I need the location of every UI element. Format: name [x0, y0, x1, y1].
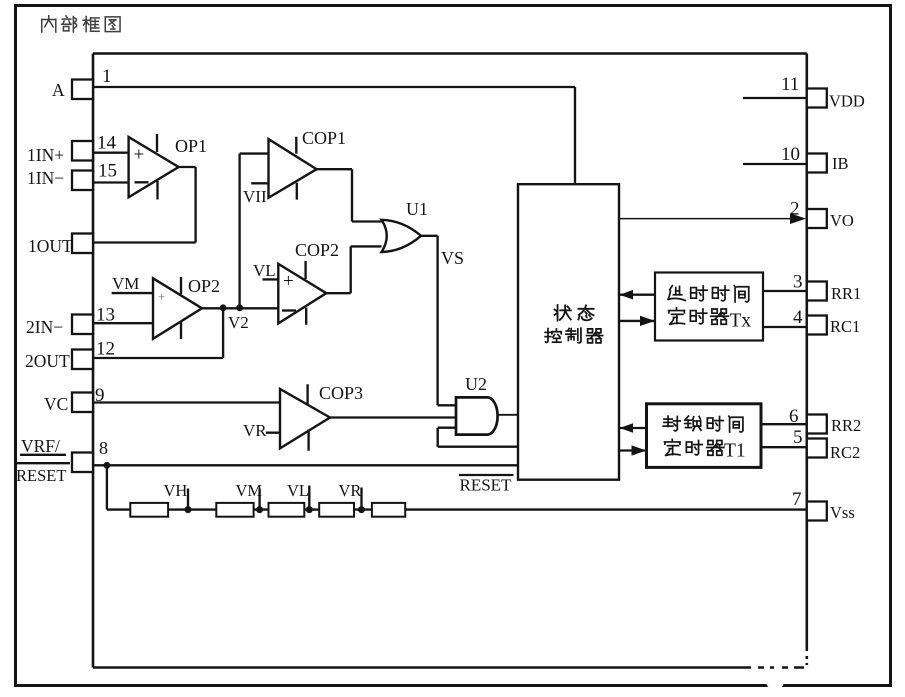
- svg-text:1IN+: 1IN+: [27, 145, 64, 165]
- svg-text:VO: VO: [830, 211, 854, 230]
- svg-text:U1: U1: [406, 199, 428, 219]
- svg-text:VH: VH: [164, 481, 188, 500]
- svg-text:VC: VC: [44, 394, 68, 414]
- svg-text:VII: VII: [243, 187, 267, 206]
- svg-text:V2: V2: [228, 313, 249, 332]
- svg-text:5: 5: [793, 427, 803, 448]
- svg-text:OP1: OP1: [175, 136, 207, 156]
- svg-text:Vss: Vss: [830, 503, 855, 522]
- svg-text:Tx: Tx: [730, 311, 752, 332]
- svg-text:VL: VL: [287, 481, 309, 500]
- svg-text:2IN−: 2IN−: [26, 317, 63, 337]
- svg-text:U2: U2: [465, 374, 487, 394]
- svg-text:VR: VR: [243, 421, 267, 440]
- svg-text:RC1: RC1: [830, 317, 860, 336]
- svg-text:RR2: RR2: [831, 416, 861, 435]
- svg-text:RESET: RESET: [460, 476, 513, 495]
- svg-text:1OUT: 1OUT: [28, 236, 73, 256]
- svg-text:OP2: OP2: [188, 276, 220, 296]
- svg-text:2OUT: 2OUT: [25, 351, 70, 371]
- svg-text:+: +: [283, 271, 294, 292]
- svg-text:A: A: [52, 80, 65, 100]
- svg-text:VM: VM: [236, 481, 263, 500]
- svg-text:RR1: RR1: [831, 284, 861, 303]
- svg-text:IB: IB: [832, 154, 849, 173]
- svg-text:T1: T1: [724, 441, 746, 462]
- svg-text:+: +: [158, 289, 165, 304]
- svg-text:12: 12: [96, 339, 115, 360]
- svg-text:VL: VL: [253, 261, 276, 280]
- svg-text:6: 6: [789, 406, 799, 427]
- svg-text:2: 2: [790, 199, 800, 220]
- svg-text:11: 11: [781, 74, 799, 95]
- svg-text:4: 4: [793, 307, 803, 328]
- svg-text:13: 13: [96, 305, 115, 326]
- svg-text:VRF/: VRF/: [21, 436, 60, 456]
- svg-text:1IN−: 1IN−: [27, 168, 64, 188]
- svg-text:COP3: COP3: [319, 383, 363, 403]
- svg-text:1: 1: [102, 66, 112, 87]
- svg-text:RC2: RC2: [830, 443, 860, 462]
- svg-text:7: 7: [792, 489, 802, 510]
- svg-text:COP2: COP2: [295, 240, 339, 260]
- svg-text:9: 9: [95, 385, 105, 406]
- svg-text:VR: VR: [339, 481, 362, 500]
- svg-text:VM: VM: [112, 274, 139, 293]
- svg-text:VDD: VDD: [829, 92, 865, 111]
- svg-text:10: 10: [781, 144, 800, 165]
- svg-text:15: 15: [98, 161, 117, 182]
- svg-text:+: +: [134, 145, 145, 166]
- svg-text:8: 8: [99, 438, 108, 458]
- svg-text:COP1: COP1: [302, 128, 346, 148]
- svg-text:RESET: RESET: [16, 466, 66, 485]
- svg-text:3: 3: [793, 272, 803, 293]
- svg-text:14: 14: [97, 133, 117, 154]
- svg-text:VS: VS: [441, 248, 464, 268]
